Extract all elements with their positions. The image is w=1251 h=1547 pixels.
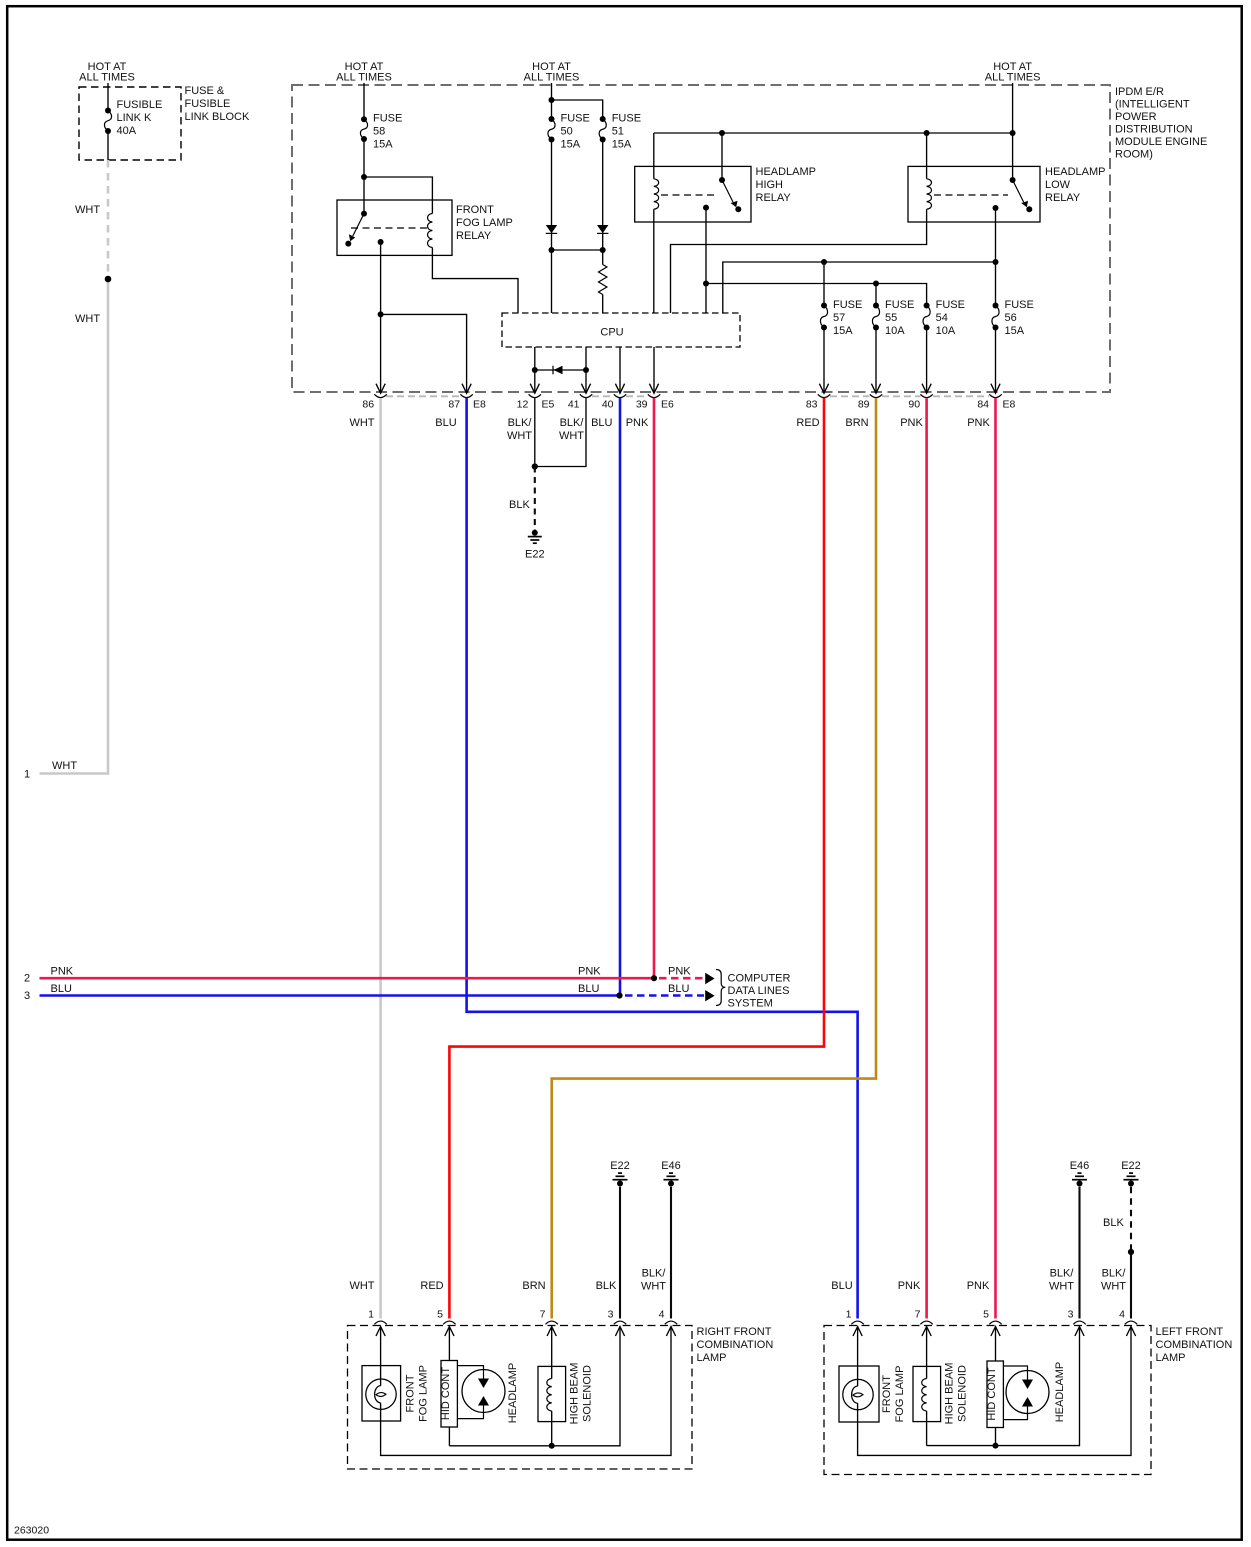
svg-text:HIGH BEAM: HIGH BEAM xyxy=(944,1363,956,1425)
svg-text:WHT: WHT xyxy=(641,1281,666,1293)
low relay switch blade with arrow xyxy=(1013,180,1029,207)
wire fuse 56 to pin 84 xyxy=(995,328,997,393)
svg-text:HIGH: HIGH xyxy=(756,179,784,191)
svg-text:LEFT FRONT: LEFT FRONT xyxy=(1156,1326,1224,1338)
right lamp connector pins (numbers) xyxy=(368,1309,665,1321)
svg-text:FUSE: FUSE xyxy=(833,299,862,311)
svg-text:FUSIBLE: FUSIBLE xyxy=(185,98,231,110)
svg-text:E6: E6 xyxy=(661,399,674,411)
wire fog coil to CPU xyxy=(432,248,518,314)
wire hot feed into fusible link xyxy=(107,83,109,111)
svg-text:40A: 40A xyxy=(117,125,137,137)
svg-text:4: 4 xyxy=(1119,1309,1125,1321)
svg-text:RED: RED xyxy=(796,417,819,429)
ground E46 (above lamp) xyxy=(664,1173,679,1186)
svg-text:ROOM): ROOM) xyxy=(1115,149,1153,161)
node BLU junction xyxy=(616,992,622,998)
fuse 50 15A symbol xyxy=(548,116,555,143)
svg-text:SOLENOID: SOLENOID xyxy=(582,1365,594,1422)
wire BLK/WHT E46 to left lamp pin 3 xyxy=(1078,1187,1080,1319)
wire branch to fuse 51 xyxy=(552,100,603,119)
svg-text:RIGHT FRONT: RIGHT FRONT xyxy=(697,1326,772,1338)
brace xyxy=(716,970,725,1006)
label FRONT FOG LAMP (right, rotated) xyxy=(405,1365,430,1422)
wire WHT pin 86 to right lamp pin 1 xyxy=(379,398,382,1319)
low relay actuation dashed line xyxy=(934,194,1008,196)
svg-text:RELAY: RELAY xyxy=(756,192,792,204)
wire BLK E22 to right lamp pin 3 xyxy=(619,1187,621,1319)
wire BLK dashed to ground xyxy=(534,467,536,531)
svg-text:10A: 10A xyxy=(885,325,905,337)
power feed HOT AT ALL TIMES (x=364) xyxy=(336,61,392,84)
svg-text:WHT: WHT xyxy=(559,430,584,442)
wire PNK pin 84 to left lamp pin 5 xyxy=(994,398,997,1319)
box RIGHT FRONT COMBINATION LAMP xyxy=(348,1326,693,1470)
wire BLU pin 87 to left lamp pin 1 xyxy=(467,398,858,1319)
svg-text:DISTRIBUTION: DISTRIBUTION xyxy=(1115,124,1193,136)
label FUSE 55 10A xyxy=(885,299,914,337)
wire feed to fuse 57 xyxy=(823,262,825,306)
svg-text:PNK: PNK xyxy=(51,966,74,978)
svg-text:FRONT: FRONT xyxy=(405,1374,417,1412)
svg-text:HEADLAMP: HEADLAMP xyxy=(1045,166,1106,178)
svg-text:FOG LAMP: FOG LAMP xyxy=(418,1365,430,1422)
svg-text:54: 54 xyxy=(936,312,948,324)
svg-text:SOLENOID: SOLENOID xyxy=(957,1365,969,1422)
wire junction to fog relay coil xyxy=(364,177,432,214)
wire fuse50 branch to CPU xyxy=(551,250,553,313)
svg-text:BRN: BRN xyxy=(522,1280,545,1292)
svg-text:DATA LINES: DATA LINES xyxy=(728,985,790,997)
wire BLU dashed to arrow xyxy=(625,994,704,997)
label HEADLAMP HIGH RELAY xyxy=(756,166,817,204)
wire pin 12 BLK/WHT xyxy=(534,398,536,467)
pin number labels 86 87 12 41 40 39 83 89 90 84 xyxy=(362,399,989,411)
svg-text:FOG LAMP: FOG LAMP xyxy=(894,1366,906,1423)
svg-text:87: 87 xyxy=(448,399,460,411)
svg-text:15A: 15A xyxy=(833,325,853,337)
svg-text:1: 1 xyxy=(24,769,30,781)
svg-text:89: 89 xyxy=(858,399,870,411)
node fuse58/relay junction xyxy=(361,174,367,180)
svg-text:CPU: CPU xyxy=(600,327,623,339)
svg-text:WHT: WHT xyxy=(349,1280,374,1292)
label FUSE 58 15A xyxy=(373,113,402,151)
svg-text:RED: RED xyxy=(420,1280,443,1292)
svg-text:FUSE: FUSE xyxy=(936,299,965,311)
connector labels E8 E5 E6 E8 xyxy=(473,399,1016,411)
svg-text:5: 5 xyxy=(437,1309,443,1321)
wire fuse 50 to diode xyxy=(551,140,553,251)
fuse 51 15A symbol xyxy=(599,116,606,143)
svg-text:58: 58 xyxy=(373,126,385,138)
svg-text:FUSE: FUSE xyxy=(885,299,914,311)
low relay common contact xyxy=(993,205,999,211)
svg-text:E22: E22 xyxy=(525,549,545,561)
svg-text:263020: 263020 xyxy=(14,1525,49,1537)
svg-text:E46: E46 xyxy=(1070,1160,1090,1172)
svg-text:BLU: BLU xyxy=(51,983,72,995)
svg-text:COMPUTER: COMPUTER xyxy=(728,973,791,985)
label COMPUTER DATA LINES SYSTEM xyxy=(728,973,791,1010)
fusible link K 40A xyxy=(104,108,111,135)
svg-text:RELAY: RELAY xyxy=(1045,192,1081,204)
svg-text:WHT: WHT xyxy=(52,760,77,772)
ground E46 (above lamp) xyxy=(1072,1173,1087,1186)
svg-text:E5: E5 xyxy=(542,399,555,411)
svg-text:HEADLAMP: HEADLAMP xyxy=(507,1363,519,1424)
ground E22 (above lamp) xyxy=(613,1173,628,1186)
diode between pins 12 and 41 xyxy=(532,366,589,375)
svg-text:WHT: WHT xyxy=(1101,1281,1126,1293)
svg-text:50: 50 xyxy=(561,126,573,138)
svg-text:FUSE &: FUSE & xyxy=(185,85,225,97)
wire pin 41 BLK/WHT xyxy=(535,398,586,467)
svg-text:PNK: PNK xyxy=(578,966,601,978)
svg-text:BLU: BLU xyxy=(435,417,456,429)
label HIGH BEAM SOLENOID (left, rotated) xyxy=(944,1363,969,1425)
wire CPU pin 41 xyxy=(585,347,587,392)
low relay coil feed xyxy=(926,133,928,179)
left high beam solenoid xyxy=(913,1327,941,1422)
high relay switch blade with arrow xyxy=(722,180,738,207)
wire fuse 57 to pin 83 xyxy=(823,328,825,393)
svg-text:3: 3 xyxy=(1068,1309,1074,1321)
wire hot feed bus xyxy=(654,83,1016,136)
wire low relay common to fuses 57/56 and CPU xyxy=(723,208,999,313)
svg-text:E22: E22 xyxy=(1121,1160,1141,1172)
node feed split 50/51 xyxy=(549,97,555,103)
high relay actuation dashed line xyxy=(661,194,718,196)
svg-text:PNK: PNK xyxy=(967,417,990,429)
left lamp connector pins (numbers) xyxy=(846,1309,1126,1321)
svg-text:BLK/: BLK/ xyxy=(560,417,585,429)
wire RED pin 83 to right lamp pin 5 xyxy=(449,398,824,1319)
svg-text:LAMP: LAMP xyxy=(697,1352,727,1364)
node diode outputs joined xyxy=(549,247,606,253)
left HID CONT unit xyxy=(987,1327,1003,1428)
fog relay actuation dashed line xyxy=(351,227,428,229)
svg-text:ALL TIMES: ALL TIMES xyxy=(336,72,392,84)
ground E22 (IPDM) xyxy=(528,530,542,543)
wire BLK/WHT E46 to right lamp pin 4 xyxy=(670,1187,672,1319)
relay box HEADLAMP HIGH RELAY xyxy=(635,166,751,222)
label FUSIBLE LINK K 40A xyxy=(117,99,163,137)
low relay switch feed xyxy=(1012,133,1014,180)
right headlamp (HID bulb) xyxy=(457,1366,505,1419)
left lamp entry arrows xyxy=(853,1327,1136,1337)
svg-text:LINK BLOCK: LINK BLOCK xyxy=(185,111,250,123)
wire low relay coil to CPU xyxy=(671,209,927,313)
wire PNK dashed to arrow xyxy=(659,977,704,980)
low relay switch fixed contact xyxy=(1010,177,1016,183)
high relay coil feed xyxy=(653,133,655,179)
svg-text:41: 41 xyxy=(568,399,580,411)
CPU box xyxy=(502,313,740,347)
wire fuse 58 to junction xyxy=(363,139,365,214)
svg-text:WHT: WHT xyxy=(349,417,374,429)
connector E8/E5/E6 gray links xyxy=(386,395,989,397)
wire CPU pin 40 xyxy=(619,347,621,392)
svg-text:HEADLAMP: HEADLAMP xyxy=(756,166,817,178)
label HEADLAMP LOW RELAY xyxy=(1045,166,1106,204)
label FUSE 54 10A xyxy=(936,299,965,337)
wire PNK pin 90 to left lamp pin 7 xyxy=(925,398,928,1319)
power feed HOT AT ALL TIMES (x=1012.6) xyxy=(985,61,1041,84)
svg-text:PNK: PNK xyxy=(898,1280,921,1292)
svg-text:HID CONT: HID CONT xyxy=(440,1367,452,1420)
wire left fog return to pin 4 xyxy=(858,1327,1131,1456)
svg-text:BLK/: BLK/ xyxy=(508,417,533,429)
IPDM connector exit arrows xyxy=(376,384,1000,394)
svg-text:LAMP: LAMP xyxy=(1156,1352,1186,1364)
svg-text:IPDM E/R: IPDM E/R xyxy=(1115,86,1164,98)
wire right fog return to pin 4 xyxy=(381,1327,671,1456)
label FUSE 56 15A xyxy=(1005,299,1034,337)
wire fuse 55 to pin 89 xyxy=(875,328,877,393)
svg-text:BLK: BLK xyxy=(509,499,530,511)
wire color labels under IPDM pins xyxy=(349,417,990,442)
label FRONT FOG LAMP RELAY xyxy=(456,204,513,242)
svg-text:MODULE ENGINE: MODULE ENGINE xyxy=(1115,136,1207,148)
fog relay switch lower contact xyxy=(345,241,351,247)
svg-text:E8: E8 xyxy=(473,399,486,411)
wire BRN pin 89 to right lamp pin 7 xyxy=(552,398,876,1319)
svg-text:5: 5 xyxy=(983,1309,989,1321)
label FUSE 57 15A xyxy=(833,299,862,337)
svg-text:51: 51 xyxy=(612,126,624,138)
svg-text:15A: 15A xyxy=(561,139,581,151)
svg-text:COMBINATION: COMBINATION xyxy=(1156,1339,1233,1351)
box LEFT FRONT COMBINATION LAMP xyxy=(824,1326,1151,1475)
wire PNK data line xyxy=(40,977,655,980)
svg-text:E8: E8 xyxy=(1003,399,1016,411)
fog relay common contact xyxy=(378,239,384,245)
svg-text:LOW: LOW xyxy=(1045,179,1071,191)
svg-text:FOG LAMP: FOG LAMP xyxy=(456,217,513,229)
high relay switch fixed contact xyxy=(719,177,725,183)
fuse 57 15A symbol xyxy=(820,303,827,331)
left front fog lamp bulb xyxy=(839,1327,879,1423)
IPDM E/R module box xyxy=(292,85,1110,392)
wire WHT solid down to connector 1 xyxy=(40,279,109,774)
wire BLU data line xyxy=(40,994,620,997)
wire fuse 51 to diode xyxy=(602,140,604,265)
svg-text:POWER: POWER xyxy=(1115,111,1157,123)
left lamp connector bumps xyxy=(851,1321,1137,1324)
relay box FRONT FOG LAMP RELAY xyxy=(337,200,452,255)
connector cradles at IPDM pins xyxy=(374,394,1001,397)
svg-text:WHT: WHT xyxy=(507,430,532,442)
svg-text:FRONT: FRONT xyxy=(881,1375,893,1413)
svg-text:39: 39 xyxy=(636,399,648,411)
svg-text:4: 4 xyxy=(659,1309,665,1321)
svg-text:FUSE: FUSE xyxy=(373,113,402,125)
fog relay switch blade with arrow xyxy=(349,214,364,242)
high relay common contact xyxy=(703,205,709,211)
wire hot feed to fuse 58 xyxy=(363,83,365,119)
resistor (fuse 51 branch) xyxy=(599,265,607,295)
labels above right lamp pins xyxy=(349,1268,666,1293)
svg-text:ALL TIMES: ALL TIMES xyxy=(79,72,135,84)
svg-text:3: 3 xyxy=(24,990,30,1002)
svg-text:86: 86 xyxy=(362,399,374,411)
svg-text:(INTELLIGENT: (INTELLIGENT xyxy=(1115,99,1190,111)
svg-text:56: 56 xyxy=(1005,312,1017,324)
fuse 54 10A symbol xyxy=(923,303,930,331)
wire PNK pin 39 to data line xyxy=(653,398,656,978)
wire BLK dashed from E22 (left) xyxy=(1130,1187,1132,1249)
right lamp connector bumps xyxy=(374,1321,677,1324)
svg-text:PNK: PNK xyxy=(626,417,649,429)
right high beam solenoid xyxy=(538,1327,566,1422)
label FUSE 51 15A xyxy=(612,113,641,151)
svg-text:1: 1 xyxy=(846,1309,852,1321)
svg-text:40: 40 xyxy=(602,399,614,411)
svg-text:COMBINATION: COMBINATION xyxy=(697,1339,774,1351)
wire high relay common to CPU and fuses 55/54 xyxy=(703,208,927,313)
wire feed to fuse 55 xyxy=(875,284,877,306)
wire resistor to CPU xyxy=(602,295,604,314)
svg-text:FUSE: FUSE xyxy=(1005,299,1034,311)
wire BLU pin 40 to data line xyxy=(619,398,622,996)
svg-text:WHT: WHT xyxy=(75,313,100,325)
wire BLK/WHT to left lamp pin 4 xyxy=(1130,1252,1132,1319)
ground E22 (above lamp) xyxy=(1124,1173,1139,1186)
svg-text:7: 7 xyxy=(915,1309,921,1321)
right HID CONT unit xyxy=(441,1327,457,1428)
svg-text:1: 1 xyxy=(368,1309,374,1321)
svg-text:15A: 15A xyxy=(1005,325,1025,337)
svg-text:ALL TIMES: ALL TIMES xyxy=(524,72,580,84)
arrow PNK data line xyxy=(705,973,714,984)
label FRONT FOG LAMP (left, rotated) xyxy=(881,1366,906,1423)
svg-text:HEADLAMP: HEADLAMP xyxy=(1054,1362,1066,1423)
fuse 55 10A symbol xyxy=(872,303,879,331)
diode (fuse 51 branch) xyxy=(597,225,608,233)
svg-text:BLK: BLK xyxy=(1103,1217,1124,1229)
svg-text:90: 90 xyxy=(908,399,920,411)
svg-text:BLK/: BLK/ xyxy=(1102,1268,1127,1280)
svg-text:7: 7 xyxy=(540,1309,546,1321)
svg-text:BLK/: BLK/ xyxy=(642,1268,667,1280)
svg-text:WHT: WHT xyxy=(1049,1281,1074,1293)
svg-text:LINK K: LINK K xyxy=(117,112,153,124)
wire fog relay output to pins 86/87 xyxy=(378,242,467,392)
svg-text:2: 2 xyxy=(24,973,30,985)
wire right solenoid+HID return to pin 3 xyxy=(449,1327,620,1449)
svg-text:WHT: WHT xyxy=(75,204,100,216)
high relay switch lower contact xyxy=(735,206,741,212)
svg-text:FRONT: FRONT xyxy=(456,204,494,216)
low relay coil xyxy=(927,179,932,209)
svg-text:55: 55 xyxy=(885,312,897,324)
right lamp entry arrows xyxy=(376,1327,676,1337)
arrow BLU data line xyxy=(705,990,714,1001)
splice junction on WHT wire xyxy=(105,276,112,283)
svg-text:57: 57 xyxy=(833,312,845,324)
high relay coil xyxy=(654,179,659,209)
node splice on E22 wire xyxy=(1128,1249,1134,1255)
svg-text:SYSTEM: SYSTEM xyxy=(728,998,773,1010)
svg-text:84: 84 xyxy=(977,399,989,411)
svg-text:HIGH BEAM: HIGH BEAM xyxy=(569,1363,581,1425)
svg-text:ALL TIMES: ALL TIMES xyxy=(985,72,1041,84)
low relay switch lower contact xyxy=(1026,206,1032,212)
wire CPU pin 39 xyxy=(653,347,655,392)
fuse 58 15A symbol xyxy=(360,116,367,142)
wire hot feed to fuse 50 xyxy=(551,83,553,119)
wire fusible link to box bottom xyxy=(107,131,109,160)
fuse & fusible link block box xyxy=(79,87,181,160)
svg-text:FUSIBLE: FUSIBLE xyxy=(117,99,163,111)
svg-text:FUSE: FUSE xyxy=(561,113,590,125)
power feed HOT AT ALL TIMES (x=107) xyxy=(79,61,135,84)
label IPDM E/R (INTELLIGENT POWER DISTRIBUTION MODULE ENGINE ROOM) xyxy=(1115,86,1207,161)
wire left solenoid+HID return to pin 3 xyxy=(927,1327,1080,1449)
svg-text:HID CONT: HID CONT xyxy=(986,1367,998,1420)
label FUSE 50 15A xyxy=(561,113,590,151)
svg-text:BLU: BLU xyxy=(578,983,599,995)
wire WHT dashed from fusible link block xyxy=(107,160,110,279)
fuse 56 15A symbol xyxy=(992,303,999,331)
label FUSE & FUSIBLE LINK BLOCK xyxy=(185,85,250,123)
svg-text:15A: 15A xyxy=(373,139,393,151)
node PNK junction xyxy=(651,975,657,981)
wire fuse 54 to pin 90 xyxy=(926,328,928,393)
right front fog lamp bulb xyxy=(362,1327,401,1422)
svg-text:BLK/: BLK/ xyxy=(1050,1268,1075,1280)
svg-text:E46: E46 xyxy=(661,1160,681,1172)
svg-text:BRN: BRN xyxy=(845,417,868,429)
fog relay coil xyxy=(428,214,433,248)
left headlamp (HID bulb) xyxy=(1003,1366,1049,1420)
svg-text:15A: 15A xyxy=(612,139,632,151)
high relay switch feed xyxy=(721,133,723,180)
wire high relay coil to CPU xyxy=(653,209,655,313)
power feed HOT AT ALL TIMES (x=551.5) xyxy=(524,61,580,84)
svg-text:PNK: PNK xyxy=(668,966,691,978)
wire CPU pin 12 xyxy=(534,347,536,392)
svg-text:BLU: BLU xyxy=(668,983,689,995)
svg-text:3: 3 xyxy=(608,1309,614,1321)
svg-text:83: 83 xyxy=(806,399,818,411)
relay box HEADLAMP LOW RELAY xyxy=(908,166,1040,222)
svg-text:RELAY: RELAY xyxy=(456,230,492,242)
node 12/41 junction xyxy=(532,463,538,469)
fog relay switch fixed contact xyxy=(361,211,367,217)
svg-text:BLK: BLK xyxy=(596,1280,617,1292)
svg-text:PNK: PNK xyxy=(967,1280,990,1292)
label HIGH BEAM SOLENOID (right, rotated) xyxy=(569,1363,594,1425)
svg-text:BLU: BLU xyxy=(831,1280,852,1292)
svg-text:12: 12 xyxy=(517,399,529,411)
svg-text:10A: 10A xyxy=(936,325,956,337)
label RIGHT FRONT COMBINATION LAMP xyxy=(697,1326,774,1364)
label LEFT FRONT COMBINATION LAMP xyxy=(1156,1326,1233,1364)
svg-text:E22: E22 xyxy=(610,1160,630,1172)
svg-text:PNK: PNK xyxy=(900,417,923,429)
labels above left lamp pins xyxy=(831,1268,1126,1293)
diode (fuse 50 branch) xyxy=(546,225,557,233)
svg-text:FUSE: FUSE xyxy=(612,113,641,125)
svg-text:BLU: BLU xyxy=(591,417,612,429)
